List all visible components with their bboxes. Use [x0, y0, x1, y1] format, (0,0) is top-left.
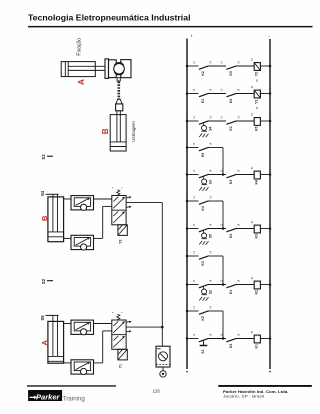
- wire: [94, 362, 103, 364]
- exhaust port S: [126, 206, 130, 209]
- relay coil K4 rung 5: [254, 171, 260, 179]
- relay coil K3 rung 7: [254, 225, 260, 233]
- left rail: [186, 39, 188, 370]
- wire supply riser: [161, 203, 163, 347]
- flow control valve B bottom: [71, 235, 94, 249]
- valve 5/2 Y2 body: [112, 196, 126, 225]
- valve 5/2 Y1 body: [112, 320, 126, 349]
- wire: [260, 93, 270, 95]
- svg-text:B: B: [40, 215, 49, 221]
- rung 10 wire: [187, 310, 199, 312]
- svg-text:Tecnologia Eletropneumática In: Tecnologia Eletropneumática Industrial: [28, 14, 191, 23]
- valve arrows bottom cell: [113, 337, 124, 348]
- Parker logo: [28, 390, 62, 401]
- footer rule left: [27, 385, 116, 387]
- cylinder B sketch rod: [116, 111, 118, 142]
- svg-text:Usinagem: Usinagem: [131, 121, 136, 142]
- svg-text:K4: K4: [201, 206, 205, 210]
- svg-text:Fixação: Fixação: [76, 38, 82, 56]
- wire: [237, 284, 255, 286]
- solenoid Y1: [118, 349, 127, 360]
- rung 4 wire: [187, 147, 199, 149]
- cylinder A rod plate: [46, 314, 59, 316]
- junction: [161, 326, 164, 329]
- exhaust port S: [126, 330, 130, 333]
- svg-text:K3: K3: [229, 71, 233, 75]
- svg-text:Training: Training: [63, 396, 86, 403]
- cylinder B body: [48, 197, 64, 242]
- svg-text:S4: S4: [40, 190, 45, 196]
- svg-text:A: A: [77, 79, 86, 85]
- wire: [209, 284, 227, 286]
- drill tip: [117, 78, 120, 81]
- contact K2 rung 11: [226, 338, 236, 342]
- air service unit: [156, 346, 170, 367]
- flow control valve A top: [71, 320, 94, 334]
- drill bit: [118, 82, 121, 100]
- svg-text:A: A: [40, 340, 49, 346]
- rung 9 wire: [187, 284, 199, 286]
- valve arrows bottom cell: [113, 212, 124, 223]
- svg-text:K2: K2: [201, 71, 205, 75]
- junction: [222, 173, 225, 176]
- vise plate: [105, 59, 109, 79]
- wire: [209, 120, 227, 122]
- cylinder B piston: [48, 231, 64, 233]
- contact S2 rung 9: [199, 284, 209, 288]
- rail end marks: [186, 371, 188, 373]
- contact K4 rung 2: [226, 93, 236, 97]
- svg-text:K1: K1: [255, 344, 259, 349]
- vise pocket bottom edge: [117, 74, 121, 76]
- vise chamfer NW: [114, 63, 117, 66]
- valve spring: [117, 190, 120, 196]
- svg-text:K4: K4: [255, 180, 259, 185]
- wire: [209, 93, 227, 95]
- relay coil K1 rung 11: [254, 335, 260, 343]
- contact K4 rung 6: [199, 201, 209, 205]
- wire: [94, 237, 103, 239]
- svg-text:B: B: [101, 128, 110, 134]
- vise pocket top edge: [117, 62, 121, 64]
- svg-text:K4: K4: [229, 99, 233, 103]
- svg-text:S2: S2: [208, 290, 212, 294]
- svg-text:S4: S4: [208, 127, 212, 131]
- wire: [94, 198, 112, 200]
- svg-text:S3: S3: [41, 154, 46, 160]
- contact K1 rung 2: [199, 93, 209, 97]
- contact K3 rung 5: [226, 174, 236, 178]
- wire: [209, 338, 227, 340]
- wire supply: [126, 326, 162, 328]
- wire: [260, 174, 270, 176]
- wire branch: [209, 147, 224, 149]
- svg-text:S1: S1: [201, 349, 205, 353]
- valve arrows top cell: [113, 322, 124, 333]
- vise chamfer SW: [114, 72, 117, 75]
- cylinder A body: [48, 321, 64, 363]
- svg-text:S2: S2: [41, 278, 46, 284]
- contact K2 rung 1: [199, 66, 209, 70]
- contact K3 rung 1: [226, 66, 236, 70]
- air source: [160, 371, 166, 377]
- wire: [162, 367, 164, 371]
- rung 1 wire: [187, 65, 199, 67]
- svg-text:K2: K2: [255, 290, 259, 295]
- valve spring: [117, 314, 120, 320]
- cylinder B sketch piston: [110, 141, 126, 143]
- wire supply: [126, 202, 162, 204]
- flow control valve A bottom: [71, 360, 94, 374]
- svg-text:Y2: Y2: [255, 72, 259, 77]
- vise right jaw: [121, 60, 131, 78]
- svg-text:126: 126: [153, 389, 161, 394]
- svg-text:Y1: Y1: [119, 364, 123, 368]
- contact K2 rung 10: [199, 311, 209, 315]
- contact S4 rung 3: [199, 121, 209, 125]
- svg-text:Jacareí, SP - Brasil: Jacareí, SP - Brasil: [223, 395, 264, 399]
- svg-text:S3: S3: [208, 180, 212, 184]
- exhaust port R: [126, 196, 130, 199]
- workpiece: [114, 63, 125, 74]
- solenoid coil Y2 rung 1: [254, 63, 260, 71]
- wire branch: [209, 200, 224, 202]
- svg-text:Y2: Y2: [119, 239, 123, 243]
- wire: [237, 65, 255, 67]
- cylinder A sketch body: [61, 62, 95, 77]
- cylinder B rod plate: [46, 193, 59, 195]
- rung 3 wire: [187, 120, 199, 122]
- rung 5 wire: [187, 174, 199, 176]
- drill chuck: [116, 99, 122, 104]
- valve arrows top cell: [113, 198, 124, 209]
- svg-text:K5: K5: [201, 153, 205, 157]
- svg-text:K2: K2: [229, 234, 233, 238]
- cylinder A sketch piston: [67, 62, 69, 77]
- svg-text:K2: K2: [201, 316, 205, 320]
- relay coil K2 rung 9: [254, 281, 260, 289]
- contact S5 rung 7: [199, 228, 209, 232]
- solenoid coil Y1 rung 2: [254, 90, 260, 98]
- svg-text:K3: K3: [201, 261, 205, 265]
- wire: [209, 228, 227, 230]
- svg-text:S5: S5: [40, 315, 45, 321]
- cylinder A sketch rod: [68, 65, 105, 67]
- rung 6 wire: [187, 200, 199, 202]
- svg-text:Parker Hannifin Ind. Com. Ltda: Parker Hannifin Ind. Com. Ltda.: [223, 390, 289, 394]
- wire: [64, 362, 71, 364]
- cylinder A piston: [48, 355, 64, 357]
- svg-text:Parker: Parker: [36, 395, 60, 402]
- junction: [222, 283, 225, 286]
- cylinder B sketch body: [110, 115, 126, 151]
- svg-text:K1: K1: [229, 290, 233, 294]
- wire: [237, 174, 255, 176]
- contact S3 rung 5: [199, 174, 209, 178]
- rung 11 wire: [187, 338, 199, 340]
- junction: [222, 227, 225, 230]
- footer rule right: [218, 385, 311, 387]
- svg-text:+: +: [190, 34, 193, 39]
- wire: [260, 228, 270, 230]
- svg-text:K1: K1: [229, 126, 233, 130]
- rung 8 wire: [187, 255, 199, 257]
- contact K3 rung 8: [199, 256, 209, 259]
- wire: [64, 237, 71, 239]
- contact K2 rung 7: [226, 228, 236, 232]
- wire: [94, 323, 112, 325]
- wire: [260, 284, 270, 286]
- cylinder A rod: [52, 315, 54, 356]
- wire: [209, 174, 227, 176]
- wire: [260, 338, 270, 340]
- wire: [260, 120, 270, 122]
- wire branch: [209, 310, 224, 312]
- title underline: [28, 26, 313, 28]
- relay coil K5 rung 3: [254, 118, 260, 126]
- contact K1 rung 3: [226, 121, 236, 125]
- svg-text:K2: K2: [229, 344, 233, 348]
- rung 7 wire: [187, 228, 199, 230]
- solenoid Y2: [118, 225, 127, 236]
- wire: [237, 120, 255, 122]
- cylinder B rod: [52, 194, 54, 232]
- wire branch: [209, 255, 224, 257]
- wire: [237, 228, 255, 230]
- vise left jaw: [109, 60, 117, 78]
- svg-text:K3: K3: [255, 234, 259, 239]
- contact K1 rung 9: [226, 284, 236, 288]
- contact S1 rung 11: [199, 338, 209, 342]
- svg-text:S5: S5: [208, 234, 212, 238]
- svg-text:K3: K3: [229, 180, 233, 184]
- rung 2 wire: [187, 93, 199, 95]
- wire: [209, 65, 227, 67]
- exhaust port R: [126, 321, 130, 324]
- svg-text:K1: K1: [201, 99, 205, 103]
- wire: [237, 338, 255, 340]
- wire: [237, 93, 255, 95]
- vise chamfer NE: [121, 63, 124, 66]
- junction: [222, 337, 225, 340]
- wire: [260, 65, 270, 67]
- vise chamfer SE: [121, 72, 124, 75]
- svg-text:Y1: Y1: [255, 99, 259, 104]
- svg-text:K5: K5: [255, 126, 259, 131]
- contact K5 rung 4: [199, 147, 209, 151]
- flow control valve B top: [71, 196, 94, 210]
- wire: [64, 323, 71, 325]
- right rail: [269, 39, 271, 369]
- wire: [64, 198, 71, 200]
